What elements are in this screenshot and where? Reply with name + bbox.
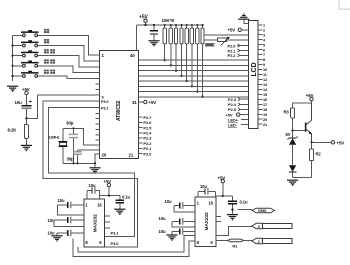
svg-text:7: 7	[263, 53, 265, 57]
node +5V reset terminal	[22, 87, 30, 95]
node +5V LCD backlight supply	[226, 112, 249, 117]
wire MCU left pin stubs	[96, 84, 100, 140]
switch S1 push button	[13, 29, 50, 37]
node P3.1 U2	[111, 230, 120, 235]
svg-text:20: 20	[263, 118, 267, 122]
ground regulator	[287, 180, 298, 185]
capacitor C2 30p	[66, 120, 78, 163]
node P2.1 LCD RW	[228, 48, 249, 53]
node P2.2 LCD E	[228, 53, 249, 58]
node P2.4 LCD	[228, 102, 249, 107]
node P2.3 LCD	[228, 97, 249, 102]
capacitor C3 30p	[67, 150, 82, 163]
node serial connector pin 3	[252, 223, 292, 229]
svg-text:8: 8	[263, 58, 265, 62]
potentiometer RP1 100K	[204, 35, 249, 47]
svg-text:2: 2	[258, 240, 260, 244]
node LED- LCD	[228, 122, 249, 127]
node LCD pin numbers 1-21	[258, 23, 268, 126]
wire button common ground bus	[12, 35, 14, 81]
resistor R3	[284, 108, 295, 131]
node GND connector flag	[252, 208, 274, 213]
wire base node	[291, 129, 305, 131]
ground U3 charge pump	[166, 235, 177, 240]
capacitor C4 10u top U2	[87, 183, 100, 199]
svg-text:0.1u: 0.1u	[240, 199, 249, 204]
ground buttons	[7, 86, 18, 91]
svg-text:6: 6	[263, 48, 265, 52]
svg-text:10K*8: 10K*8	[162, 18, 175, 23]
wire U2 right stubs	[105, 216, 110, 228]
wire R1 to pin2 flag	[244, 239, 252, 241]
svg-text:2: 2	[263, 28, 265, 32]
wire U3 right stubs	[216, 216, 221, 221]
node P2.0 LCD RS	[228, 43, 249, 48]
svg-text:R3: R3	[284, 110, 290, 115]
svg-text:10u: 10u	[58, 198, 65, 203]
svg-text:GND: GND	[258, 209, 266, 213]
svg-text:+5V: +5V	[104, 179, 112, 184]
wire XTAL2 node	[78, 149, 100, 151]
wire P3.0 MCU pin10 to MAX232 U2	[43, 101, 138, 247]
ground U2 charge pump	[51, 236, 62, 241]
wire LCD pin1 to ground	[244, 19, 249, 23]
resistor network RN1 10K*8	[162, 18, 205, 98]
svg-text:19: 19	[263, 113, 267, 117]
svg-text:16: 16	[263, 98, 267, 102]
crystal Y1 12MHz	[49, 128, 68, 163]
node LED+ LCD	[228, 117, 249, 122]
wire U3 to pin3 flag	[216, 226, 252, 235]
wire GND flag	[238, 209, 253, 211]
diode D2	[289, 165, 296, 177]
IC U2 MAX232	[84, 199, 105, 247]
svg-text:+5V: +5V	[228, 28, 236, 33]
wire crystal ground rail	[63, 154, 100, 168]
svg-text:16: 16	[208, 201, 213, 206]
capacitor C1 10u reset	[15, 95, 32, 119]
svg-text:+5V: +5V	[22, 87, 30, 92]
diode D1 zener 5V	[286, 131, 298, 166]
wire S4 to MCU pin 4	[40, 66, 100, 73]
ground MCU pin20	[89, 168, 100, 173]
svg-text:30p: 30p	[66, 120, 74, 125]
svg-text:21: 21	[129, 153, 134, 158]
ground rail cap	[148, 41, 159, 46]
node +5V top rail terminal	[139, 15, 149, 23]
node P3.0 U2	[111, 241, 120, 246]
svg-text:9: 9	[263, 63, 265, 67]
switch S4 push button	[13, 59, 55, 67]
switch S5 push button	[13, 70, 55, 78]
capacitor C11 10u U3	[165, 199, 196, 212]
svg-text:R2: R2	[316, 152, 322, 157]
border frame corner top right	[339, 0, 350, 9]
capacitor C7 10u U2	[48, 217, 84, 227]
svg-text:3: 3	[258, 225, 260, 229]
wire S2 to MCU pin 2	[40, 46, 100, 62]
capacitor C13 10u U3	[159, 228, 196, 235]
svg-text:100K: 100K	[206, 43, 215, 47]
node P2.5 LCD	[228, 107, 249, 112]
node P2.7-P2.0 MCU port stubs	[138, 115, 152, 156]
svg-text:13: 13	[263, 83, 267, 87]
svg-text:+5V: +5V	[337, 140, 345, 145]
node +5V LCD VDD	[228, 28, 249, 33]
wire S5 to MCU pin 5	[40, 76, 100, 78]
wire U2 to U3 serial A	[78, 236, 195, 253]
wire XTAL1 node	[63, 127, 100, 145]
node +5V output terminal	[310, 141, 331, 143]
capacitor C5 0.1u U2	[115, 195, 130, 209]
svg-text:P3.0: P3.0	[111, 241, 120, 246]
svg-text:11: 11	[263, 73, 267, 77]
svg-text:10u: 10u	[159, 216, 166, 221]
svg-text:AT89C52: AT89C52	[116, 100, 122, 121]
wire +5V rail	[136, 23, 204, 51]
svg-text:1: 1	[263, 23, 265, 27]
svg-text:P3.1: P3.1	[111, 230, 120, 235]
svg-text:15: 15	[263, 93, 267, 97]
svg-text:21: 21	[263, 123, 267, 127]
resistor R1	[228, 239, 244, 248]
svg-text:10u: 10u	[159, 229, 166, 234]
wire P3.1 MCU pin11 to MAX232 U2	[48, 108, 134, 237]
svg-text:17: 17	[263, 103, 267, 107]
capacitor C10 0.1u U3	[228, 196, 248, 210]
svg-text:3: 3	[263, 33, 265, 37]
svg-text:20: 20	[102, 153, 107, 158]
IC U1 AT89C52 microcontroller	[100, 51, 139, 159]
node +6V terminal	[306, 93, 315, 101]
svg-text:LED-: LED-	[228, 122, 238, 127]
wire U2 to U3 serial B	[73, 239, 195, 257]
wire U3 pin9 to R1	[216, 239, 228, 241]
svg-text:5V: 5V	[286, 132, 291, 137]
svg-text:5: 5	[263, 43, 265, 47]
wire U2 vcc	[100, 195, 120, 199]
svg-text:18: 18	[263, 108, 267, 112]
svg-text:P3.0: P3.0	[101, 100, 108, 104]
svg-text:MAX232: MAX232	[93, 214, 99, 232]
resistor R4 8.2K	[8, 118, 29, 145]
capacitor C8 10u U2	[48, 230, 84, 237]
svg-text:P2.5: P2.5	[228, 107, 237, 112]
svg-text:40: 40	[130, 53, 135, 58]
svg-text:10u: 10u	[89, 183, 96, 188]
svg-text:10u: 10u	[165, 199, 172, 204]
svg-text:30p: 30p	[67, 156, 75, 161]
wire +6V rail	[293, 101, 312, 108]
IC U3 MAX232	[195, 197, 216, 247]
svg-text:P2.2: P2.2	[228, 53, 237, 58]
ground U2 vcc cap	[114, 209, 125, 214]
wire regulator ground rail	[293, 177, 312, 179]
ground reset	[21, 145, 32, 150]
svg-text:16: 16	[97, 202, 102, 207]
resistor R2	[309, 142, 321, 177]
node serial connector pin 2	[252, 238, 292, 244]
wire S3 to MCU pin 3	[40, 56, 100, 67]
svg-text:P2.0: P2.0	[143, 151, 152, 156]
svg-text:MAX232: MAX232	[204, 212, 210, 230]
svg-text:0.1u: 0.1u	[122, 195, 131, 200]
wire reset node to MCU pin 9	[25, 95, 99, 120]
svg-text:+5V: +5V	[149, 100, 157, 105]
svg-text:8.2K: 8.2K	[8, 128, 18, 133]
svg-text:R1: R1	[233, 243, 239, 248]
ground U3 vcc cap	[227, 209, 238, 220]
capacitor C6 10u U2	[57, 198, 83, 215]
node pin31 EA +5V terminal	[132, 100, 156, 105]
node +5V U2	[104, 179, 112, 195]
capacitor C9 10u top U3	[198, 184, 215, 197]
switch S2 push button	[13, 39, 50, 47]
wire U3 vcc	[215, 195, 232, 197]
svg-text:10u: 10u	[48, 231, 55, 236]
svg-text:LCD: LCD	[251, 62, 258, 76]
capacitor C12 10u U3	[159, 216, 196, 227]
svg-text:31: 31	[132, 100, 137, 105]
IC U4 LCD module	[249, 21, 259, 129]
svg-text:10u: 10u	[15, 100, 23, 105]
svg-text:10: 10	[263, 68, 267, 72]
switch S3 push button	[13, 49, 55, 57]
wire P0 data bus D0-D7 MCU to LCD	[138, 60, 248, 97]
transistor Q1 NPN	[306, 103, 312, 142]
svg-text:12MHz: 12MHz	[49, 136, 60, 140]
svg-text:+5V: +5V	[139, 15, 149, 21]
node +5V U3	[218, 175, 226, 196]
svg-text:+5V: +5V	[218, 175, 226, 180]
svg-text:12: 12	[263, 78, 267, 82]
svg-text:+6V: +6V	[306, 93, 315, 98]
capacitor rail decoupling	[150, 25, 158, 40]
svg-text:10u: 10u	[200, 184, 207, 189]
svg-text:P3.1: P3.1	[101, 106, 108, 110]
wire S1 to MCU pin 1	[40, 35, 100, 55]
ground LCD VSS inverted	[238, 14, 249, 19]
